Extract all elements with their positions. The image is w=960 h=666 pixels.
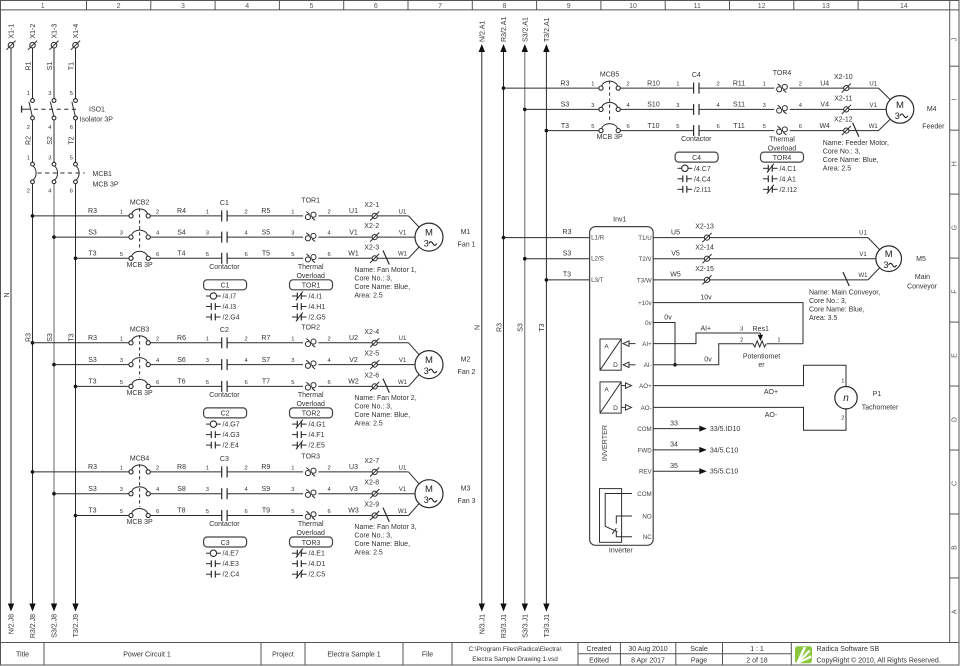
- terminal X2-15: [695, 266, 714, 285]
- svg-text:/4.A1: /4.A1: [780, 176, 796, 183]
- svg-text:Edited: Edited: [589, 657, 609, 664]
- wire R10: [620, 80, 693, 88]
- wire S8: [150, 486, 221, 494]
- svg-text:3: 3: [884, 260, 889, 270]
- inverter label: [609, 548, 633, 555]
- A/D converter (analog inputs): [600, 339, 636, 370]
- wire S10: [620, 102, 693, 110]
- svg-text:1 : 1: 1 : 1: [750, 646, 764, 653]
- wire W2: [318, 379, 372, 387]
- svg-text:/4.E7: /4.E7: [223, 551, 239, 558]
- svg-text:5: 5: [70, 155, 73, 161]
- svg-text:Fan 3: Fan 3: [458, 498, 476, 505]
- svg-text:Core Name: Blue,: Core Name: Blue,: [823, 157, 879, 164]
- terminal X2-3: [364, 244, 379, 263]
- wire R3 tap to MCB4: [31, 464, 129, 474]
- svg-text:2: 2: [328, 336, 331, 342]
- terminal X2-1: [364, 202, 379, 221]
- svg-text:T9: T9: [262, 508, 270, 515]
- wire U3 to motor: [378, 465, 420, 484]
- svg-text:5: 5: [206, 252, 209, 258]
- svg-text:Thermal: Thermal: [298, 392, 324, 399]
- net R3/2.A1: [500, 17, 508, 52]
- wire S3 tap to MCB4: [52, 486, 129, 496]
- svg-text:X2-13: X2-13: [695, 224, 714, 231]
- tachometer P1: [835, 387, 899, 412]
- svg-text:3: 3: [291, 358, 294, 364]
- wire U2 to motor: [378, 336, 420, 355]
- svg-text:MCB 3P: MCB 3P: [127, 519, 153, 526]
- svg-text:6: 6: [328, 509, 331, 515]
- wire N bus (right): [475, 52, 482, 604]
- svg-text:W2: W2: [348, 379, 359, 386]
- svg-text:M5: M5: [916, 256, 926, 263]
- terminal X2-4: [364, 329, 379, 348]
- svg-text:T3/2.A1: T3/2.A1: [544, 17, 551, 42]
- svg-text:T3: T3: [68, 333, 75, 341]
- svg-text:Area: 2.5: Area: 2.5: [354, 293, 383, 300]
- svg-text:R3: R3: [561, 80, 570, 87]
- svg-text:/4.E1: /4.E1: [309, 551, 325, 558]
- svg-text:C4: C4: [692, 155, 701, 162]
- svg-text:2: 2: [245, 336, 248, 342]
- svg-text:Created: Created: [587, 646, 612, 653]
- svg-text:1: 1: [291, 336, 294, 342]
- svg-text:/4.H1: /4.H1: [309, 304, 326, 311]
- svg-text:1: 1: [676, 82, 679, 88]
- svg-text:0v: 0v: [645, 320, 652, 327]
- svg-text:TOR2: TOR2: [301, 325, 320, 332]
- svg-text:3: 3: [206, 358, 209, 364]
- svg-text:6: 6: [245, 380, 248, 386]
- wire V3: [318, 486, 372, 494]
- wire R9: [227, 464, 303, 472]
- svg-text:12: 12: [758, 3, 766, 10]
- title block: [1, 643, 959, 666]
- contactor C4: [681, 72, 720, 143]
- svg-text:3: 3: [206, 231, 209, 237]
- wire R3 bus: [25, 184, 32, 604]
- contactor C3: [209, 456, 248, 528]
- svg-text:REV: REV: [639, 469, 653, 476]
- svg-text:T3: T3: [88, 251, 96, 258]
- svg-text:2: 2: [156, 209, 159, 215]
- svg-text:1: 1: [120, 336, 123, 342]
- svg-text:R3: R3: [496, 323, 503, 332]
- svg-text:/4.G1: /4.G1: [309, 422, 326, 429]
- svg-text:1: 1: [206, 465, 209, 471]
- svg-text:W1: W1: [398, 252, 408, 258]
- svg-text:FWD: FWD: [638, 447, 653, 454]
- wire S3 bus (right): [518, 52, 525, 604]
- svg-text:C3: C3: [220, 456, 229, 463]
- contactor C3 cross-references: [204, 537, 247, 579]
- net T3/2.A1: [543, 17, 551, 52]
- svg-text:3: 3: [763, 103, 766, 109]
- svg-text:N: N: [475, 325, 482, 330]
- svg-text:3: 3: [48, 155, 51, 161]
- svg-text:N/2.J8: N/2.J8: [9, 614, 16, 634]
- wire V2: [318, 357, 372, 365]
- svg-text:1: 1: [206, 209, 209, 215]
- svg-text:T3: T3: [88, 508, 96, 515]
- wire T1: [68, 48, 75, 99]
- svg-text:1: 1: [206, 336, 209, 342]
- wire S3 tap to MCB3: [52, 357, 129, 367]
- svg-text:2: 2: [627, 82, 630, 88]
- svg-text:1: 1: [777, 338, 780, 344]
- circuit breaker MCB5: [597, 72, 631, 142]
- terminal X1-4: [71, 24, 80, 50]
- inverter relay output contact: [600, 489, 633, 543]
- wire V5: [653, 251, 704, 259]
- svg-text:6: 6: [156, 252, 159, 258]
- svg-text:F: F: [952, 289, 959, 293]
- svg-text:S3/3.J1: S3/3.J1: [522, 614, 529, 638]
- net S3/2.J8: [51, 604, 59, 638]
- svg-text:R3: R3: [88, 208, 97, 215]
- wire AO+: [653, 365, 846, 396]
- terminal X2-7: [364, 458, 379, 477]
- svg-text:MCB 3P: MCB 3P: [127, 262, 153, 269]
- svg-text:N/3.J1: N/3.J1: [479, 614, 486, 634]
- wire V3 to motor: [378, 487, 416, 494]
- svg-text:8: 8: [502, 3, 506, 10]
- svg-text:S3/2.A1: S3/2.A1: [522, 17, 529, 42]
- svg-text:6: 6: [627, 124, 630, 130]
- svg-text:1: 1: [120, 465, 123, 471]
- svg-text:6: 6: [717, 124, 720, 130]
- svg-text:U3: U3: [349, 464, 358, 471]
- svg-text:Thermal: Thermal: [769, 136, 795, 143]
- isolator ISO1: [22, 91, 114, 131]
- svg-text:5: 5: [70, 91, 73, 97]
- svg-text:Page: Page: [691, 657, 707, 664]
- svg-text:R3: R3: [563, 229, 572, 236]
- svg-text:ISO1: ISO1: [89, 107, 105, 114]
- svg-text:X2-6: X2-6: [364, 372, 379, 379]
- svg-text:TOR1: TOR1: [302, 283, 321, 290]
- svg-text:5: 5: [120, 380, 123, 386]
- svg-text:Name: Fan Motor 3,: Name: Fan Motor 3,: [354, 524, 416, 531]
- svg-text:C1: C1: [220, 200, 229, 207]
- svg-text:13: 13: [822, 3, 830, 10]
- wire S6: [150, 357, 221, 365]
- svg-text:3: 3: [424, 495, 429, 505]
- contactor C2 cross-references: [204, 408, 247, 450]
- net R3/3.J1: [500, 604, 508, 639]
- svg-text:Overload: Overload: [296, 401, 325, 408]
- svg-text:T5: T5: [262, 251, 270, 258]
- svg-text:MCB3: MCB3: [130, 326, 150, 333]
- svg-text:3: 3: [676, 103, 679, 109]
- wire U2: [318, 335, 372, 343]
- svg-text:Core Name: Blue,: Core Name: Blue,: [354, 412, 410, 419]
- svg-text:S8: S8: [177, 486, 186, 493]
- svg-text:S3/2.J8: S3/2.J8: [52, 614, 59, 638]
- svg-text:/4.G3: /4.G3: [223, 432, 240, 439]
- svg-text:Core No.: 3,: Core No.: 3,: [823, 149, 861, 156]
- svg-text:/2.I12: /2.I12: [780, 187, 798, 194]
- svg-text:G: G: [952, 225, 959, 230]
- svg-text:S2: S2: [47, 136, 54, 145]
- thermal overload TOR1 cross-references: [290, 280, 333, 322]
- wire W5: [653, 272, 704, 280]
- net N/2.J8: [8, 604, 16, 635]
- wire W1 to motor + cable mark: [378, 247, 420, 265]
- svg-text:W1: W1: [398, 509, 408, 515]
- svg-text:Potentiomet: Potentiomet: [743, 354, 780, 361]
- svg-text:X1-1: X1-1: [9, 24, 16, 39]
- svg-text:V1: V1: [399, 487, 407, 493]
- svg-text:33/5.ID10: 33/5.ID10: [710, 426, 740, 433]
- svg-text:R3/2.A1: R3/2.A1: [501, 17, 508, 42]
- svg-text:T3/W: T3/W: [637, 277, 652, 284]
- svg-text:M: M: [425, 484, 433, 495]
- svg-text:T1: T1: [68, 62, 75, 70]
- svg-text:1: 1: [120, 209, 123, 215]
- wire R3 tap to MCB5: [502, 80, 599, 90]
- svg-text:n: n: [843, 393, 849, 404]
- svg-text:B: B: [952, 545, 959, 550]
- wire T3 to inverter: [545, 272, 590, 282]
- svg-text:V1: V1: [349, 229, 358, 236]
- svg-text:6: 6: [328, 252, 331, 258]
- svg-text:3: 3: [120, 231, 123, 237]
- svg-text:/2.C4: /2.C4: [223, 572, 240, 579]
- svg-text:U1: U1: [399, 336, 407, 342]
- motor M1: [415, 223, 476, 251]
- svg-text:/2.E4: /2.E4: [223, 443, 239, 450]
- svg-text:Contactor: Contactor: [209, 264, 240, 271]
- wire T7: [227, 379, 303, 387]
- svg-text:S4: S4: [177, 229, 186, 236]
- svg-text:5: 5: [120, 509, 123, 515]
- svg-text:T3: T3: [88, 379, 96, 386]
- svg-text:30 Aug 2010: 30 Aug 2010: [628, 646, 667, 653]
- cable label Feeder Motor: [823, 140, 889, 173]
- svg-text:T10: T10: [647, 123, 659, 130]
- svg-text:H: H: [952, 161, 959, 166]
- wire R1: [25, 48, 32, 99]
- net T3/3.J1: [543, 604, 551, 638]
- svg-text:D: D: [952, 417, 959, 422]
- svg-text:X2-7: X2-7: [364, 458, 379, 465]
- svg-text:X2-9: X2-9: [364, 502, 379, 509]
- svg-text:U5: U5: [671, 229, 680, 236]
- wire S3 tap to MCB2: [52, 229, 129, 239]
- svg-text:T3/2.J9: T3/2.J9: [73, 614, 80, 637]
- motor M2: [415, 351, 476, 379]
- terminal X1-3: [49, 24, 58, 50]
- svg-text:S11: S11: [733, 102, 745, 109]
- wire R6: [150, 335, 221, 343]
- net R3/2.J8: [29, 604, 37, 639]
- svg-text:V1: V1: [859, 252, 867, 258]
- svg-text:TOR3: TOR3: [302, 540, 321, 547]
- wire U4: [790, 80, 844, 88]
- cable label Fan Motor 2: [354, 395, 416, 428]
- wire T3 tap to MCB5: [545, 123, 599, 133]
- svg-text:U1: U1: [399, 465, 407, 471]
- svg-text:3: 3: [895, 111, 900, 121]
- svg-text:J: J: [952, 38, 959, 42]
- svg-text:Electra Sample Drawing 1.vsd: Electra Sample Drawing 1.vsd: [472, 656, 558, 663]
- svg-text:S5: S5: [262, 229, 271, 236]
- circuit breaker MCB4: [127, 456, 160, 527]
- wire S4: [150, 229, 221, 237]
- svg-text:TOR1: TOR1: [301, 198, 320, 205]
- wire V1: [318, 229, 372, 237]
- svg-text:Radica Software SB: Radica Software SB: [817, 646, 880, 653]
- svg-text:Area: 2.5: Area: 2.5: [354, 550, 383, 557]
- svg-text:7: 7: [438, 3, 442, 10]
- svg-text:A: A: [604, 344, 609, 351]
- wire S2: [47, 120, 54, 162]
- svg-text:+10v: +10v: [638, 300, 652, 307]
- terminal X1-1: [6, 24, 15, 50]
- svg-text:3: 3: [206, 487, 209, 493]
- svg-text:A: A: [604, 387, 609, 394]
- wire T3 bus: [68, 184, 75, 604]
- svg-text:INVERTER: INVERTER: [600, 425, 609, 461]
- terminal X2-9: [364, 502, 379, 521]
- svg-text:5: 5: [591, 124, 594, 130]
- svg-text:6: 6: [374, 3, 378, 10]
- svg-text:/4.C1: /4.C1: [780, 166, 797, 173]
- svg-text:X2-5: X2-5: [364, 351, 379, 358]
- svg-text:Contactor: Contactor: [209, 392, 240, 399]
- svg-text:COM: COM: [637, 426, 651, 433]
- thermal overload TOR4: [768, 70, 803, 152]
- svg-text:/4.D1: /4.D1: [309, 561, 326, 568]
- svg-text:Overload: Overload: [768, 145, 797, 152]
- svg-text:R1: R1: [25, 61, 32, 70]
- svg-text:AO-: AO-: [641, 405, 652, 412]
- svg-text:2: 2: [156, 336, 159, 342]
- svg-text:MCB1: MCB1: [93, 171, 113, 178]
- wire S7: [227, 357, 303, 365]
- svg-text:T3/3.J1: T3/3.J1: [544, 614, 551, 637]
- svg-text:MCB 3P: MCB 3P: [127, 390, 153, 397]
- terminal X1-2: [28, 24, 37, 50]
- svg-text:/4.E3: /4.E3: [223, 561, 239, 568]
- svg-text:Contactor: Contactor: [681, 136, 712, 143]
- svg-text:S3: S3: [47, 333, 54, 342]
- svg-text:R7: R7: [261, 335, 270, 342]
- svg-text:Project: Project: [272, 651, 294, 658]
- svg-text:14: 14: [900, 3, 908, 10]
- svg-text:Name: Main Conveyor,: Name: Main Conveyor,: [809, 290, 880, 297]
- svg-text:Core No.: 3,: Core No.: 3,: [354, 276, 392, 283]
- svg-text:6: 6: [245, 509, 248, 515]
- svg-text:W1: W1: [348, 251, 359, 258]
- wire S9: [227, 486, 303, 494]
- thermal overload TOR3 cross-references: [290, 537, 333, 579]
- wire T8: [150, 508, 221, 516]
- wire W4: [790, 123, 844, 131]
- cable label Main Conveyor: [809, 290, 880, 323]
- svg-text:Feeder: Feeder: [922, 124, 945, 131]
- svg-text:/2.G5: /2.G5: [309, 315, 326, 322]
- svg-text:R5: R5: [261, 208, 270, 215]
- svg-text:6: 6: [328, 380, 331, 386]
- svg-text:2: 2: [27, 125, 30, 131]
- svg-text:X2-11: X2-11: [834, 95, 852, 102]
- svg-text:MCB4: MCB4: [130, 456, 150, 463]
- svg-text:Core Name: Blue,: Core Name: Blue,: [354, 284, 410, 291]
- svg-text:6: 6: [156, 509, 159, 515]
- wire N bus: [4, 48, 11, 604]
- svg-text:3: 3: [740, 326, 743, 332]
- svg-text:/4.I7: /4.I7: [223, 294, 237, 301]
- wire W1: [318, 251, 372, 259]
- svg-text:35: 35: [670, 463, 678, 470]
- contactor C1 cross-references: [204, 280, 247, 322]
- svg-text:L2/S: L2/S: [591, 256, 604, 263]
- svg-text:M3: M3: [461, 486, 471, 493]
- wire T10: [620, 123, 693, 131]
- svg-text:34: 34: [670, 442, 678, 449]
- svg-text:C2: C2: [220, 327, 229, 334]
- svg-text:N: N: [4, 292, 11, 297]
- svg-text:Contactor: Contactor: [209, 521, 240, 528]
- svg-text:Fan 2: Fan 2: [458, 369, 476, 376]
- svg-text:V2: V2: [349, 357, 358, 364]
- svg-text:Name: Fan Motor 2,: Name: Fan Motor 2,: [354, 395, 416, 402]
- svg-text:Conveyor: Conveyor: [907, 284, 938, 291]
- svg-text:S1: S1: [47, 62, 54, 71]
- wire U1: [318, 208, 372, 216]
- terminal X2-5: [364, 351, 379, 370]
- svg-text:9: 9: [567, 3, 571, 10]
- svg-text:2: 2: [328, 209, 331, 215]
- wire T3 tap to MCB2: [74, 251, 129, 261]
- svg-text:1: 1: [27, 91, 30, 97]
- svg-text:U4: U4: [820, 80, 829, 87]
- svg-text:R3: R3: [88, 335, 97, 342]
- svg-text:Core Name: Blue,: Core Name: Blue,: [354, 541, 410, 548]
- svg-text:33: 33: [670, 420, 678, 427]
- svg-text:Thermal: Thermal: [298, 264, 324, 271]
- svg-text:I: I: [952, 99, 959, 101]
- inverter Inv1: [590, 217, 654, 546]
- motor M3: [415, 480, 476, 508]
- wire U4 to motor: [849, 82, 890, 100]
- svg-text:3: 3: [424, 239, 429, 249]
- svg-text:er: er: [758, 362, 765, 369]
- svg-text:T3: T3: [561, 123, 569, 130]
- svg-text:S3: S3: [563, 250, 572, 257]
- svg-text:/2.G4: /2.G4: [223, 315, 240, 322]
- svg-text:X2-10: X2-10: [834, 74, 853, 81]
- svg-text:2: 2: [841, 415, 844, 421]
- svg-text:11: 11: [694, 3, 701, 10]
- svg-text:M: M: [425, 355, 433, 366]
- svg-text:U1: U1: [859, 231, 867, 237]
- svg-text:2: 2: [27, 189, 30, 195]
- svg-text:U1: U1: [869, 82, 877, 88]
- svg-text:T3: T3: [539, 323, 546, 331]
- svg-text:E: E: [952, 353, 959, 358]
- svg-text:2: 2: [156, 465, 159, 471]
- terminal X2-14: [695, 245, 714, 264]
- svg-text:35/5.C10: 35/5.C10: [710, 469, 739, 476]
- svg-text:Name: Feeder Motor,: Name: Feeder Motor,: [823, 140, 889, 147]
- svg-text:Isolator 3P: Isolator 3P: [80, 117, 114, 124]
- svg-text:Inverter: Inverter: [609, 548, 633, 555]
- wire AO-: [653, 407, 846, 430]
